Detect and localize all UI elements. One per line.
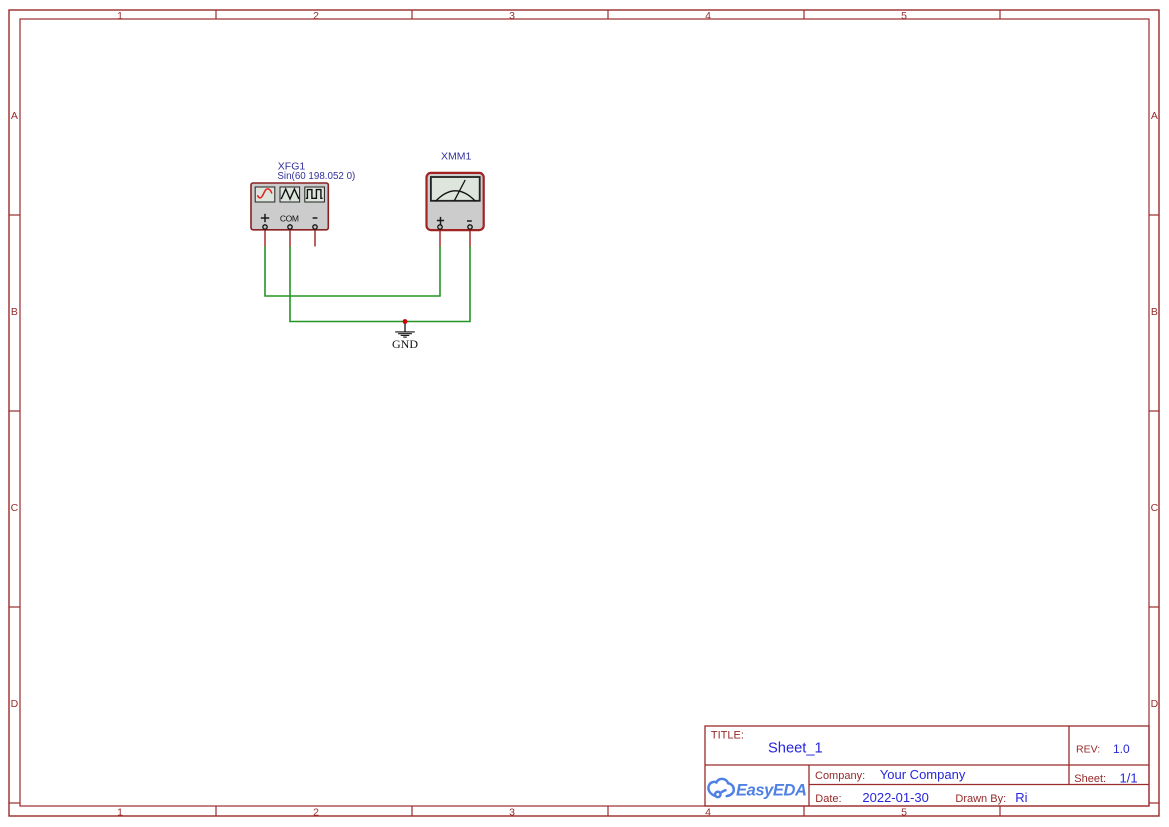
svg-text:A: A <box>11 110 18 122</box>
XMM1 display <box>431 177 480 201</box>
XMM1 pin circle + <box>438 225 442 229</box>
svg-text:Date:: Date: <box>815 793 841 805</box>
XFG1 triangle waveform <box>281 189 299 199</box>
pin stub XMM1 pin + <box>439 227 441 247</box>
svg-text:B: B <box>1151 306 1158 318</box>
svg-text:A: A <box>1151 110 1158 122</box>
XMM1 minus label <box>467 220 472 222</box>
svg-text:COM: COM <box>280 213 299 223</box>
svg-text:4: 4 <box>705 807 711 819</box>
pin stub XFG1 pin - (unconnected) <box>314 227 316 247</box>
ruler row letters left <box>11 110 19 710</box>
svg-text:2022-01-30: 2022-01-30 <box>862 790 929 805</box>
svg-text:1: 1 <box>117 10 123 22</box>
pin stub XMM1 pin - <box>469 227 471 247</box>
XMM1 meter arc <box>436 191 476 202</box>
ruler column numbers bottom <box>117 807 907 819</box>
ground symbol stem <box>404 322 406 332</box>
svg-text:Sin(60 198.052 0): Sin(60 198.052 0) <box>277 171 355 182</box>
svg-text:Ri: Ri <box>1015 790 1027 805</box>
XFG1 pin circle + <box>263 225 267 229</box>
XFG1 square waveform <box>306 190 323 199</box>
svg-text:TITLE:: TITLE: <box>711 730 744 742</box>
svg-text:EasyEDA: EasyEDA <box>736 782 807 800</box>
svg-text:Company:: Company: <box>815 770 865 782</box>
function generator XFG1 body <box>251 183 328 230</box>
XMM1 plus label <box>437 217 444 225</box>
svg-text:C: C <box>11 502 19 514</box>
ruler column ticks bottom <box>216 806 1000 816</box>
XFG1 minus label <box>313 217 318 219</box>
wire net2: XFG1 COM to XMM1 - through GND <box>290 246 470 322</box>
svg-text:3: 3 <box>509 807 515 819</box>
svg-text:1: 1 <box>117 807 123 819</box>
XFG1 pin circle - <box>313 225 317 229</box>
XMM1 pin circle - <box>468 225 472 229</box>
pin stub XFG1 pin COM <box>289 227 291 247</box>
ruler column ticks top <box>216 10 1000 19</box>
svg-text:1/1: 1/1 <box>1120 770 1138 785</box>
svg-text:2: 2 <box>313 807 319 819</box>
pin stub XFG1 pin + <box>264 227 266 247</box>
svg-text:REV:: REV: <box>1076 744 1100 756</box>
title block outline <box>705 726 1149 806</box>
svg-text:XMM1: XMM1 <box>441 151 471 163</box>
multimeter XMM1 body <box>427 173 484 230</box>
svg-text:GND: GND <box>392 337 418 351</box>
ruler row ticks left <box>9 215 20 803</box>
svg-text:Sheet:: Sheet: <box>1074 773 1106 785</box>
svg-text:Drawn By:: Drawn By: <box>955 793 1006 805</box>
svg-text:4: 4 <box>705 10 711 22</box>
svg-text:D: D <box>1151 698 1159 710</box>
XMM1 meter needle <box>454 180 465 201</box>
svg-text:Sheet_1: Sheet_1 <box>768 741 823 757</box>
svg-text:1.0: 1.0 <box>1113 742 1130 756</box>
svg-text:C: C <box>1151 502 1159 514</box>
XFG1 sine waveform (red) <box>258 189 272 198</box>
ruler column numbers top <box>117 10 907 22</box>
svg-text:3: 3 <box>509 10 515 22</box>
ground symbol bars <box>395 332 415 337</box>
XFG1 square button <box>305 187 325 202</box>
XFG1 sine button <box>255 187 275 202</box>
svg-text:B: B <box>11 306 18 318</box>
svg-text:D: D <box>11 698 19 710</box>
svg-text:5: 5 <box>901 807 907 819</box>
XFG1 plus label <box>261 214 269 222</box>
svg-text:2: 2 <box>313 10 319 22</box>
wire net1: XFG1 + to XMM1 + <box>265 246 440 296</box>
XFG1 pin circle COM <box>288 225 292 229</box>
EasyEDA logo cloud <box>708 779 733 797</box>
junction dot at GND node <box>403 319 408 324</box>
svg-text:5: 5 <box>901 10 907 22</box>
ruler row ticks right <box>1149 215 1159 803</box>
svg-text:Your Company: Your Company <box>880 767 966 782</box>
XFG1 triangle button <box>280 187 300 202</box>
ruler row letters right <box>1151 110 1159 710</box>
